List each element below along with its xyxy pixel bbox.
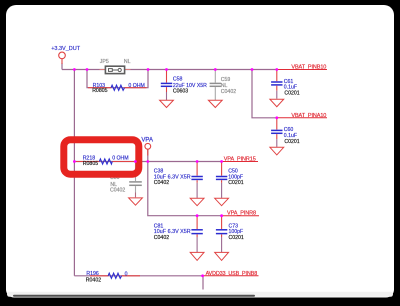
svg-text:C0402: C0402: [154, 180, 169, 186]
junction: VPA rail / R218 + NL cap: [134, 160, 137, 163]
capacitor C38: [191, 162, 202, 198]
wire: long left vertical: [73, 70, 75, 276]
junction: top rail / R103 branch right: [147, 68, 150, 71]
svg-text:NL: NL: [124, 59, 131, 65]
wire: top rail right of jumper: [125, 69, 277, 71]
capacitor C81: [191, 216, 202, 252]
svg-text:VBAT_PINB10: VBAT_PINB10: [291, 64, 326, 70]
power port VPA: [145, 143, 151, 155]
svg-text:+3.3V_DUT: +3.3V_DUT: [51, 46, 81, 52]
wire: vertical to VBAT_PINA10 row: [252, 70, 277, 118]
svg-text:R0805: R0805: [83, 161, 98, 167]
svg-text:R0402: R0402: [86, 277, 101, 283]
ground (C38): [190, 198, 204, 205]
junction: top rail / R103 branch left: [86, 68, 89, 71]
junction: top rail / VBAT_PINA10 drop: [251, 68, 254, 71]
ground (C80): [129, 198, 143, 205]
junction: bottom rail / AVDD33 stub: [201, 274, 204, 277]
wire: stub below AVDD33 junction: [202, 276, 204, 290]
svg-text:0.1uF: 0.1uF: [284, 85, 297, 91]
svg-text:JP5: JP5: [100, 59, 109, 65]
scrollbar track: [7, 292, 393, 297]
wire: red net stub VPA_PINR8: [222, 215, 259, 217]
svg-text:AVDD33_USB_PINB8: AVDD33_USB_PINB8: [206, 271, 258, 277]
ground (C61): [270, 99, 284, 107]
svg-text:VPA_PINR15: VPA_PINR15: [224, 156, 256, 162]
ground (C59): [208, 100, 222, 107]
svg-text:VPA: VPA: [141, 138, 153, 144]
svg-text:C0201: C0201: [284, 91, 299, 97]
junction: VBAT_PINA10 row / C60: [275, 116, 278, 119]
wire: red net stub VBAT_PINA10: [277, 117, 327, 119]
ground (C58): [160, 100, 174, 107]
junction: VPA rail / C38: [196, 160, 199, 163]
junction: top rail / C59: [214, 68, 217, 71]
resistor R218: [76, 159, 135, 164]
ground (C73): [215, 252, 229, 260]
wire: R103 bypass branch: [87, 70, 148, 88]
wire: red net stub VBAT_PINB10: [277, 69, 327, 71]
junction: VPA rail / VPA port: [146, 160, 149, 163]
wire: red net stub VPA_PINR15: [222, 161, 258, 163]
svg-text:C0201: C0201: [229, 235, 244, 241]
junction: VPA_PINR8 rail / C73: [220, 214, 223, 217]
capacitor C80 (NL, partially hidden): [129, 162, 142, 197]
svg-text:C0603: C0603: [173, 88, 188, 94]
wire: top rail: [62, 69, 105, 71]
capacitor C59 (NL): [210, 70, 221, 100]
wire: VPA port stub: [147, 149, 149, 162]
svg-text:R196: R196: [86, 271, 99, 277]
svg-text:C0201: C0201: [228, 180, 243, 186]
svg-text:C0402: C0402: [154, 235, 169, 241]
red highlight box: [64, 140, 139, 175]
junction: top rail / C61: [275, 68, 278, 71]
scrollbar thumb: [13, 295, 255, 297]
junction: VPA_PINR8 rail / C81: [196, 214, 199, 217]
capacitor C61: [271, 70, 282, 99]
ground (C50): [215, 198, 229, 205]
wire: VPA rail: [74, 161, 221, 163]
resistor R103: [88, 85, 147, 90]
svg-text:VPA_PINR8: VPA_PINR8: [227, 211, 256, 217]
svg-text:0.1uF: 0.1uF: [284, 133, 297, 139]
wire: VPA vertical down and VPA_PINR8 rail: [148, 162, 222, 216]
svg-text:0: 0: [125, 271, 128, 277]
junction: top rail / C58: [165, 68, 168, 71]
junction: VPA rail / left vertical: [73, 160, 76, 163]
junction: top rail / left vertical: [73, 68, 76, 71]
ground (C60): [270, 147, 284, 155]
svg-text:C0402: C0402: [110, 187, 125, 193]
wire: bottom rail: [74, 275, 202, 277]
capacitor C58: [161, 70, 172, 100]
ground (C81): [190, 252, 204, 260]
wire: power stub down to top rail: [61, 63, 63, 70]
capacitor C73: [216, 216, 227, 252]
svg-text:0 OHM: 0 OHM: [128, 83, 144, 89]
svg-text:R0805: R0805: [92, 88, 107, 94]
svg-text:0 OHM: 0 OHM: [112, 156, 128, 162]
svg-text:C0402: C0402: [221, 89, 236, 95]
wire: red net stub AVDD33_USB_PINB8: [203, 275, 259, 277]
resistor R196: [90, 273, 140, 278]
svg-text:C0201: C0201: [284, 139, 299, 145]
power port +3.3V_DUT: [59, 52, 66, 64]
svg-text:VBAT_PINA10: VBAT_PINA10: [291, 113, 326, 119]
capacitor C60: [271, 118, 282, 147]
junction: VPA rail / C50: [220, 160, 223, 163]
jumper JP5: [100, 66, 131, 73]
capacitor C50: [216, 162, 227, 198]
svg-text:C58: C58: [173, 77, 183, 83]
